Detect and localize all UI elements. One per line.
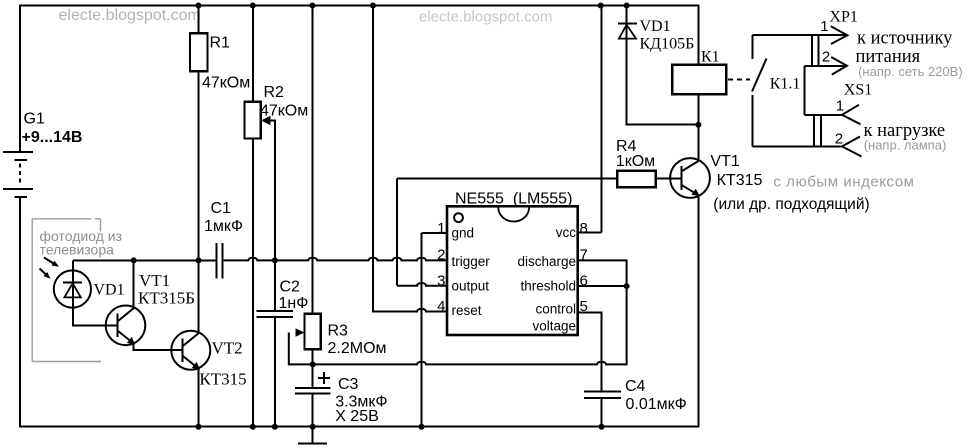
svg-text:R2: R2 [264, 84, 285, 101]
svg-text:C4: C4 [625, 378, 646, 395]
svg-text:2: 2 [822, 49, 830, 66]
svg-text:1мкФ: 1мкФ [204, 218, 243, 235]
svg-text:electe.blogspot.com: electe.blogspot.com [59, 7, 201, 24]
svg-text:8: 8 [580, 220, 588, 237]
svg-text:1: 1 [437, 220, 445, 237]
svg-text:К1.1: К1.1 [770, 76, 801, 93]
svg-text:2.2МОм: 2.2МОм [328, 340, 387, 357]
svg-text:C1: C1 [211, 200, 232, 217]
svg-text:7: 7 [580, 247, 588, 264]
svg-text:VT2: VT2 [212, 339, 243, 358]
svg-text:1: 1 [836, 98, 844, 115]
svg-text:XS1: XS1 [844, 82, 872, 99]
svg-text:threshold: threshold [520, 279, 576, 294]
svg-text:VD1: VD1 [640, 18, 671, 35]
svg-text:питания: питания [856, 47, 921, 67]
svg-text:voltage: voltage [532, 319, 576, 334]
svg-text:к нагрузке: к нагрузке [864, 121, 946, 141]
svg-text:3: 3 [437, 273, 445, 290]
svg-text:0.01мкФ: 0.01мкФ [626, 396, 687, 413]
svg-text:VD1: VD1 [94, 282, 125, 299]
svg-text:trigger: trigger [452, 254, 491, 269]
svg-text:NE555 (LM555): NE555 (LM555) [455, 191, 572, 208]
svg-text:телевизора: телевизора [40, 242, 115, 258]
svg-text:R3: R3 [328, 323, 349, 340]
svg-text:X 25В: X 25В [335, 408, 379, 425]
svg-text:КТ315Б: КТ315Б [138, 289, 195, 308]
svg-text:1кОм: 1кОм [616, 153, 655, 170]
svg-text:к источнику: к источнику [857, 29, 953, 49]
svg-text:2: 2 [835, 131, 843, 148]
svg-text:XP1: XP1 [829, 9, 857, 26]
svg-text:(или др. подходящий): (или др. подходящий) [713, 196, 869, 213]
svg-text:К1: К1 [701, 49, 720, 66]
svg-text:vcc: vcc [556, 225, 577, 240]
svg-text:КТ315: КТ315 [199, 370, 246, 389]
svg-text:5: 5 [580, 298, 588, 315]
svg-text:4: 4 [437, 298, 445, 315]
svg-text:КТ315: КТ315 [717, 172, 763, 189]
svg-text:+9...14В: +9...14В [22, 129, 83, 146]
svg-text:47кОм: 47кОм [260, 103, 308, 120]
svg-text:reset: reset [452, 303, 482, 318]
svg-text:output: output [452, 279, 490, 294]
svg-text:R1: R1 [210, 35, 231, 52]
svg-text:G1: G1 [24, 111, 45, 128]
svg-text:КД105Б: КД105Б [640, 36, 695, 53]
svg-text:control: control [535, 302, 576, 317]
svg-text:с любым индексом: с любым индексом [773, 174, 914, 191]
svg-text:C3: C3 [338, 376, 359, 393]
svg-text:electe.blogspot.com: electe.blogspot.com [419, 9, 552, 26]
svg-text:1нФ: 1нФ [279, 295, 309, 312]
svg-text:gnd: gnd [452, 226, 475, 241]
svg-text:discharge: discharge [517, 254, 576, 269]
svg-text:2: 2 [437, 247, 445, 264]
svg-text:VT1: VT1 [139, 271, 170, 290]
svg-text:6: 6 [580, 273, 588, 290]
svg-text:C2: C2 [280, 279, 301, 296]
svg-text:47кОм: 47кОм [202, 75, 250, 92]
svg-text:VT1: VT1 [710, 153, 739, 170]
svg-text:1: 1 [820, 18, 828, 35]
